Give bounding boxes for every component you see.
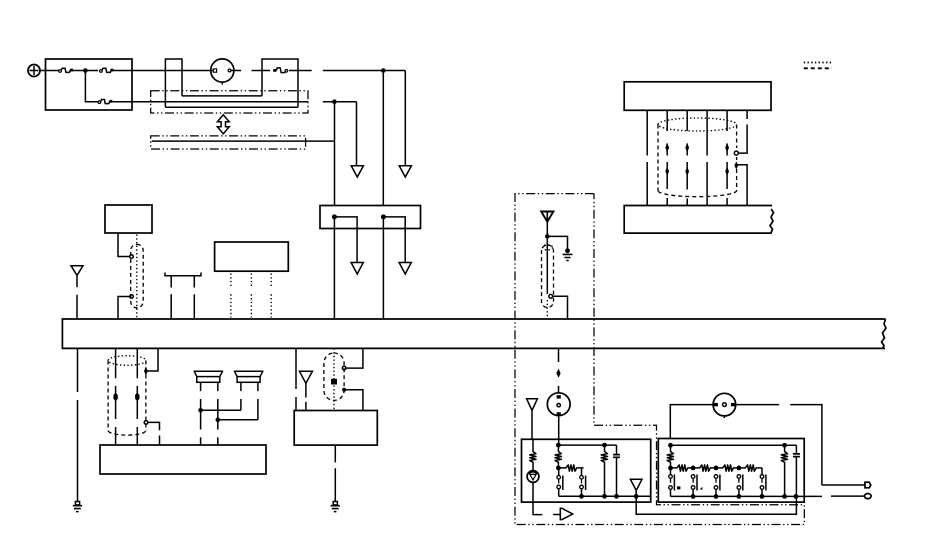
dotted lead capsule bottom to bus: [546, 300, 548, 319]
junction node O top: [668, 443, 673, 448]
wire bus to unit U3 (pin a): [115, 348, 117, 445]
switch contact S6: [737, 475, 743, 497]
dotted lead through amp capsule: [333, 348, 335, 410]
key cylinder switch SW2: [547, 393, 570, 416]
connector staple right (pass-through): [262, 59, 298, 107]
wire step left branch: [334, 217, 357, 262]
pin marks wire 3: [685, 143, 689, 176]
cable reel wire 6 lower: [738, 165, 748, 206]
connector triangle C2: [399, 166, 411, 177]
switch contact S5: [714, 475, 720, 497]
coil L1 (siren feed): [530, 439, 536, 470]
junction node chain 2: [691, 466, 696, 471]
wire bus to cylinder edge pin: [148, 348, 159, 371]
wire ignition fuse output y=70.5: [289, 70, 405, 72]
box bottom bus: [559, 495, 651, 497]
wire U4 to ground G2: [334, 445, 336, 501]
pin mark b: [135, 393, 139, 402]
wire bus to unit U3 (pin b): [136, 348, 138, 445]
connector staple left (pass-through): [165, 59, 182, 107]
coil L5: [667, 445, 673, 468]
connector pass-through outer bar: [165, 106, 298, 108]
wire fuse F3 output: [113, 101, 132, 103]
speaker SP2: [235, 371, 263, 383]
wire C7 into control box: [531, 411, 533, 440]
O box bottom bus: [671, 495, 823, 497]
dash-dot boundary bar (floor wire harness): [151, 136, 306, 149]
capacitor C10: [613, 445, 620, 496]
connector terminal (open) capsule: [549, 294, 553, 298]
connector terminal (open) upper: [130, 255, 134, 259]
wire C5 to bus: [76, 275, 78, 319]
pin mark (filled square) in capsule: [331, 379, 337, 385]
wire to connector terminal upper: [822, 484, 865, 486]
switch contact S7: [760, 475, 766, 497]
wire antenna to ground G3: [547, 236, 567, 248]
amplifier unit U4: [294, 411, 377, 446]
cable reel (dashed cylinder): [658, 118, 737, 197]
wire hot main down to junction box: [382, 71, 384, 206]
connector terminal T2 (round): [865, 494, 872, 499]
ground G3: [563, 248, 573, 261]
junction nodes bottom bus: [579, 494, 584, 499]
switch contact S1: [557, 470, 563, 496]
pin mark key cylinder lead: [556, 369, 560, 378]
coil L10: [781, 445, 787, 496]
wire capsule terminal to bus: [553, 296, 568, 319]
dotted lead through capsule: [136, 235, 138, 320]
cable reel wire 1: [646, 110, 648, 205]
wire capsule lower to bus: [118, 297, 130, 320]
connector cylinder (dashed, door harness): [108, 356, 146, 435]
junction box (relay block): [320, 206, 421, 229]
pin mark c (cylinder edge): [144, 367, 148, 376]
junction terminal (filled) capsule lower: [342, 388, 346, 392]
cable reel wire 3: [686, 110, 688, 205]
ignition switch SW1: [211, 59, 234, 85]
connector terminal T1 (square): [865, 482, 871, 488]
ground G2 (body ground): [331, 502, 340, 513]
speaker SP2 leads: [241, 382, 258, 420]
connector triangle C1: [351, 166, 363, 177]
antenna connector triangle C6: [299, 371, 312, 383]
wire bus to key cylinder switch: [558, 348, 560, 393]
legend dashed line: [804, 67, 832, 69]
O box top bus: [671, 444, 797, 446]
coil chain L8: [716, 465, 739, 471]
control unit U1: [105, 205, 152, 233]
wire left feed to bus: [333, 217, 335, 319]
antenna connector triangle C5: [71, 266, 83, 276]
junction node box top bus: [556, 443, 561, 448]
switch contact S4: [691, 475, 702, 497]
speaker SP1: [194, 371, 222, 383]
steering column upper unit (bar): [624, 82, 771, 111]
wire bus to amplifier left: [295, 348, 297, 410]
wire U1 to connector capsule upper: [118, 233, 130, 257]
connector capsule (dashed): [131, 244, 144, 307]
connector pass-through inner bar: [182, 95, 262, 97]
wire motor left to relay box: [670, 405, 713, 439]
wire step right branch: [383, 217, 405, 262]
junction node SP cross wire 2: [216, 418, 221, 423]
wire capsule top to bus: [346, 348, 363, 368]
wire siren to arrow out: [533, 482, 542, 514]
audio unit U2: [215, 242, 289, 271]
motor M1 (antenna motor): [713, 393, 736, 418]
coil L4: [601, 445, 607, 496]
wire C8 to bottom bus: [635, 491, 637, 497]
switch contact S3: [669, 470, 681, 497]
antenna A1: [541, 212, 553, 222]
wire motor right with break: [736, 405, 822, 485]
dash-dot boundary box (dashboard wire harness): [151, 91, 308, 113]
battery B1 positive terminal: [28, 65, 40, 77]
wire relay coil to contact 2: [581, 468, 583, 475]
ground G1 (body ground): [73, 502, 82, 513]
cable reel wire 2: [666, 110, 668, 205]
wire battery to fuse box: [40, 70, 46, 72]
pin marks wire 2: [665, 143, 669, 176]
unit U3 (door control): [100, 445, 266, 474]
connector terminal (open) capsule top: [342, 366, 346, 370]
wire link bottom bus to right box: [636, 496, 796, 514]
relay coil L3 (horizontal): [558, 465, 583, 471]
connector terminal (open) reel upper: [734, 151, 738, 155]
speaker SP1 leads: [201, 382, 218, 445]
wire antenna lead down: [546, 222, 548, 294]
junction node inside box left: [332, 214, 337, 219]
junction node chain 4: [737, 466, 742, 471]
pin marks wire 5: [725, 143, 729, 176]
wire chain end to contact 5: [761, 468, 763, 475]
wire cylinder terminal to unit U3: [148, 422, 160, 445]
connector terminal (open) cylinder lower: [144, 421, 148, 425]
junction node chain 3: [714, 466, 719, 471]
wire accessory branch down to connector: [356, 102, 358, 166]
fuse F4 (ignition feed): [273, 68, 288, 73]
wire SP2 right lead to SP1 lead: [218, 419, 258, 421]
arrow out (to antenna lead): [553, 508, 573, 519]
legend dotted line: [804, 62, 832, 64]
junction node inside box right: [381, 214, 386, 219]
junction terminal (filled) reel lower: [734, 162, 738, 170]
switch contact S2: [580, 476, 586, 497]
dash-dot boundary (security system area): [515, 194, 804, 525]
wire right feed to bus: [382, 217, 384, 319]
capacitor C11: [793, 445, 800, 496]
siren (horn symbol): [527, 471, 539, 483]
wire C6 to amplifier: [305, 383, 307, 410]
wire hot branch down to connector: [404, 71, 406, 166]
junction node O top right: [782, 443, 787, 448]
cable reel wire 6 upper: [738, 110, 747, 153]
cable reel wire 4: [706, 110, 708, 205]
connector terminal (open) lower: [130, 295, 134, 299]
connector triangle C4: [399, 263, 411, 275]
security control unit box: [522, 439, 651, 502]
dotted ellipse capsule top: [543, 245, 553, 250]
junction node on hot wire: [381, 68, 386, 73]
junction node chain 1: [668, 466, 673, 471]
wire capsule lower to amplifier: [344, 390, 363, 411]
wire bottom bus to terminal lower: [831, 495, 865, 497]
junction nodes O bottom bus: [691, 494, 696, 499]
fuse F3: [98, 100, 112, 104]
coil chain L7: [693, 465, 716, 471]
cable reel wire 5: [726, 110, 728, 205]
junction node SP cross wire 1: [198, 408, 203, 413]
wire key cylinder to control box: [558, 416, 560, 446]
connector capsule (dashed) amp: [324, 353, 344, 400]
wire box top bus: [558, 444, 616, 446]
connector triangle C7: [527, 399, 538, 411]
wire main feed y=70.5 inside fuse box: [46, 70, 133, 72]
wire accessory main down to junction box: [334, 102, 336, 206]
connector triangle C8 (in box): [630, 479, 642, 490]
pin mark a: [113, 393, 117, 402]
connector arrow (up-down mating symbol): [217, 115, 229, 134]
wire inside floor harness y=141.1: [152, 140, 335, 142]
bracket legs: [171, 276, 194, 319]
junction node (fuse box feed): [83, 68, 88, 73]
coil chain L9: [739, 465, 762, 471]
bracket connector (two-leg): [165, 273, 201, 276]
wire hot feed y=70.5 fuse box to ignition switch: [132, 70, 211, 72]
relay coil L2: [555, 445, 561, 468]
wire ignition switch to fuse F4: [234, 70, 270, 72]
dotted leads U2 to bus: [231, 274, 271, 318]
wire branch down to fuse F3: [85, 71, 98, 102]
junction node relay: [556, 466, 561, 471]
coil chain L6: [671, 465, 694, 471]
steering column lower unit (bar with break): [624, 206, 773, 234]
main wire harness busbar (with break at right): [62, 319, 886, 349]
wire accessory feed y=101.7: [132, 101, 357, 103]
antenna relay box: [658, 439, 804, 503]
connector triangle C3: [351, 263, 363, 275]
wire bus to ground G1: [77, 348, 79, 501]
fuse F1: [59, 68, 73, 72]
fuse F2: [100, 68, 114, 72]
junction node top bus right: [602, 443, 607, 448]
junction node on accessory wire: [332, 99, 337, 104]
fuse box (under-hood): [46, 59, 133, 110]
junction node antenna: [545, 234, 550, 239]
wire SP2 left lead to SP1 lead: [201, 409, 241, 411]
connector capsule (dashed) antenna: [542, 245, 554, 308]
